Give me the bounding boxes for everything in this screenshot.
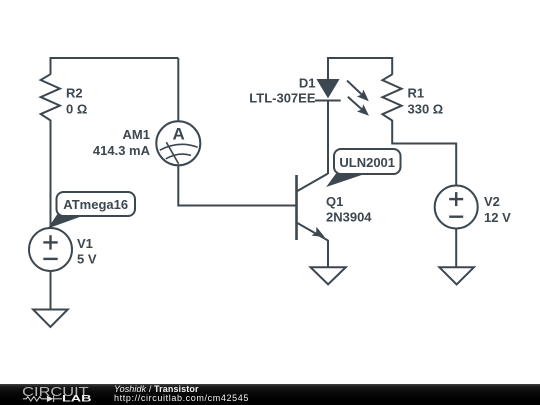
LED D1 (249, 76, 372, 120)
ground below V1 (33, 310, 68, 328)
voltage source V2 (435, 186, 511, 229)
svg-text:R2: R2 (66, 86, 83, 101)
footer bar (0, 384, 540, 405)
svg-text:V2: V2 (484, 194, 500, 209)
svg-text:V1: V1 (77, 236, 93, 251)
wire R1 to V2 (392, 120, 456, 186)
footer text (114, 385, 249, 403)
svg-text:LAB: LAB (62, 393, 92, 403)
svg-text:414.3 mA: 414.3 mA (93, 143, 151, 158)
svg-text:0 Ω: 0 Ω (66, 102, 87, 117)
wire emitter to ground (327, 240, 329, 268)
ammeter AM1 (93, 121, 200, 165)
wire LED rail upper (327, 57, 329, 79)
wire AM1 rail upper (177, 58, 179, 122)
wire left rail upper stub (50, 57, 52, 75)
wire R1 rail upper stub (391, 57, 393, 75)
label ULN2001 (328, 149, 401, 186)
svg-text:2N3904: 2N3904 (326, 210, 372, 225)
svg-text:AM1: AM1 (123, 127, 150, 142)
wire V2 to ground (455, 228, 457, 268)
voltage source V1 (29, 228, 97, 271)
svg-text:D1: D1 (299, 76, 316, 91)
footer logo CIRCUIT LAB (0, 384, 110, 405)
ground below V2 (439, 267, 474, 284)
svg-text:R1: R1 (408, 86, 425, 101)
wire AM1 to base corner (178, 165, 296, 206)
svg-text:12 V: 12 V (484, 210, 511, 225)
svg-text:LTL-307EE: LTL-307EE (249, 91, 316, 106)
wire LED to collector diagonal (327, 101, 329, 174)
svg-text:ULN2001: ULN2001 (339, 155, 395, 170)
svg-text:Q1: Q1 (326, 194, 343, 209)
wire left rail R2 to V1 (50, 120, 52, 228)
resistor R2 (41, 74, 88, 120)
svg-text:ATmega16: ATmega16 (63, 197, 128, 212)
wire top-left horizontal (51, 57, 179, 59)
resistor R1 (382, 74, 443, 120)
svg-text:5 V: 5 V (77, 252, 97, 267)
svg-text:330 Ω: 330 Ω (408, 102, 444, 117)
transistor Q1 (297, 174, 373, 242)
ground below Q1 (311, 267, 346, 284)
wire V1 to ground (50, 271, 52, 310)
wire top-right horizontal (328, 57, 392, 59)
label ATmega16 (49, 192, 135, 228)
svg-text:A: A (172, 125, 184, 144)
